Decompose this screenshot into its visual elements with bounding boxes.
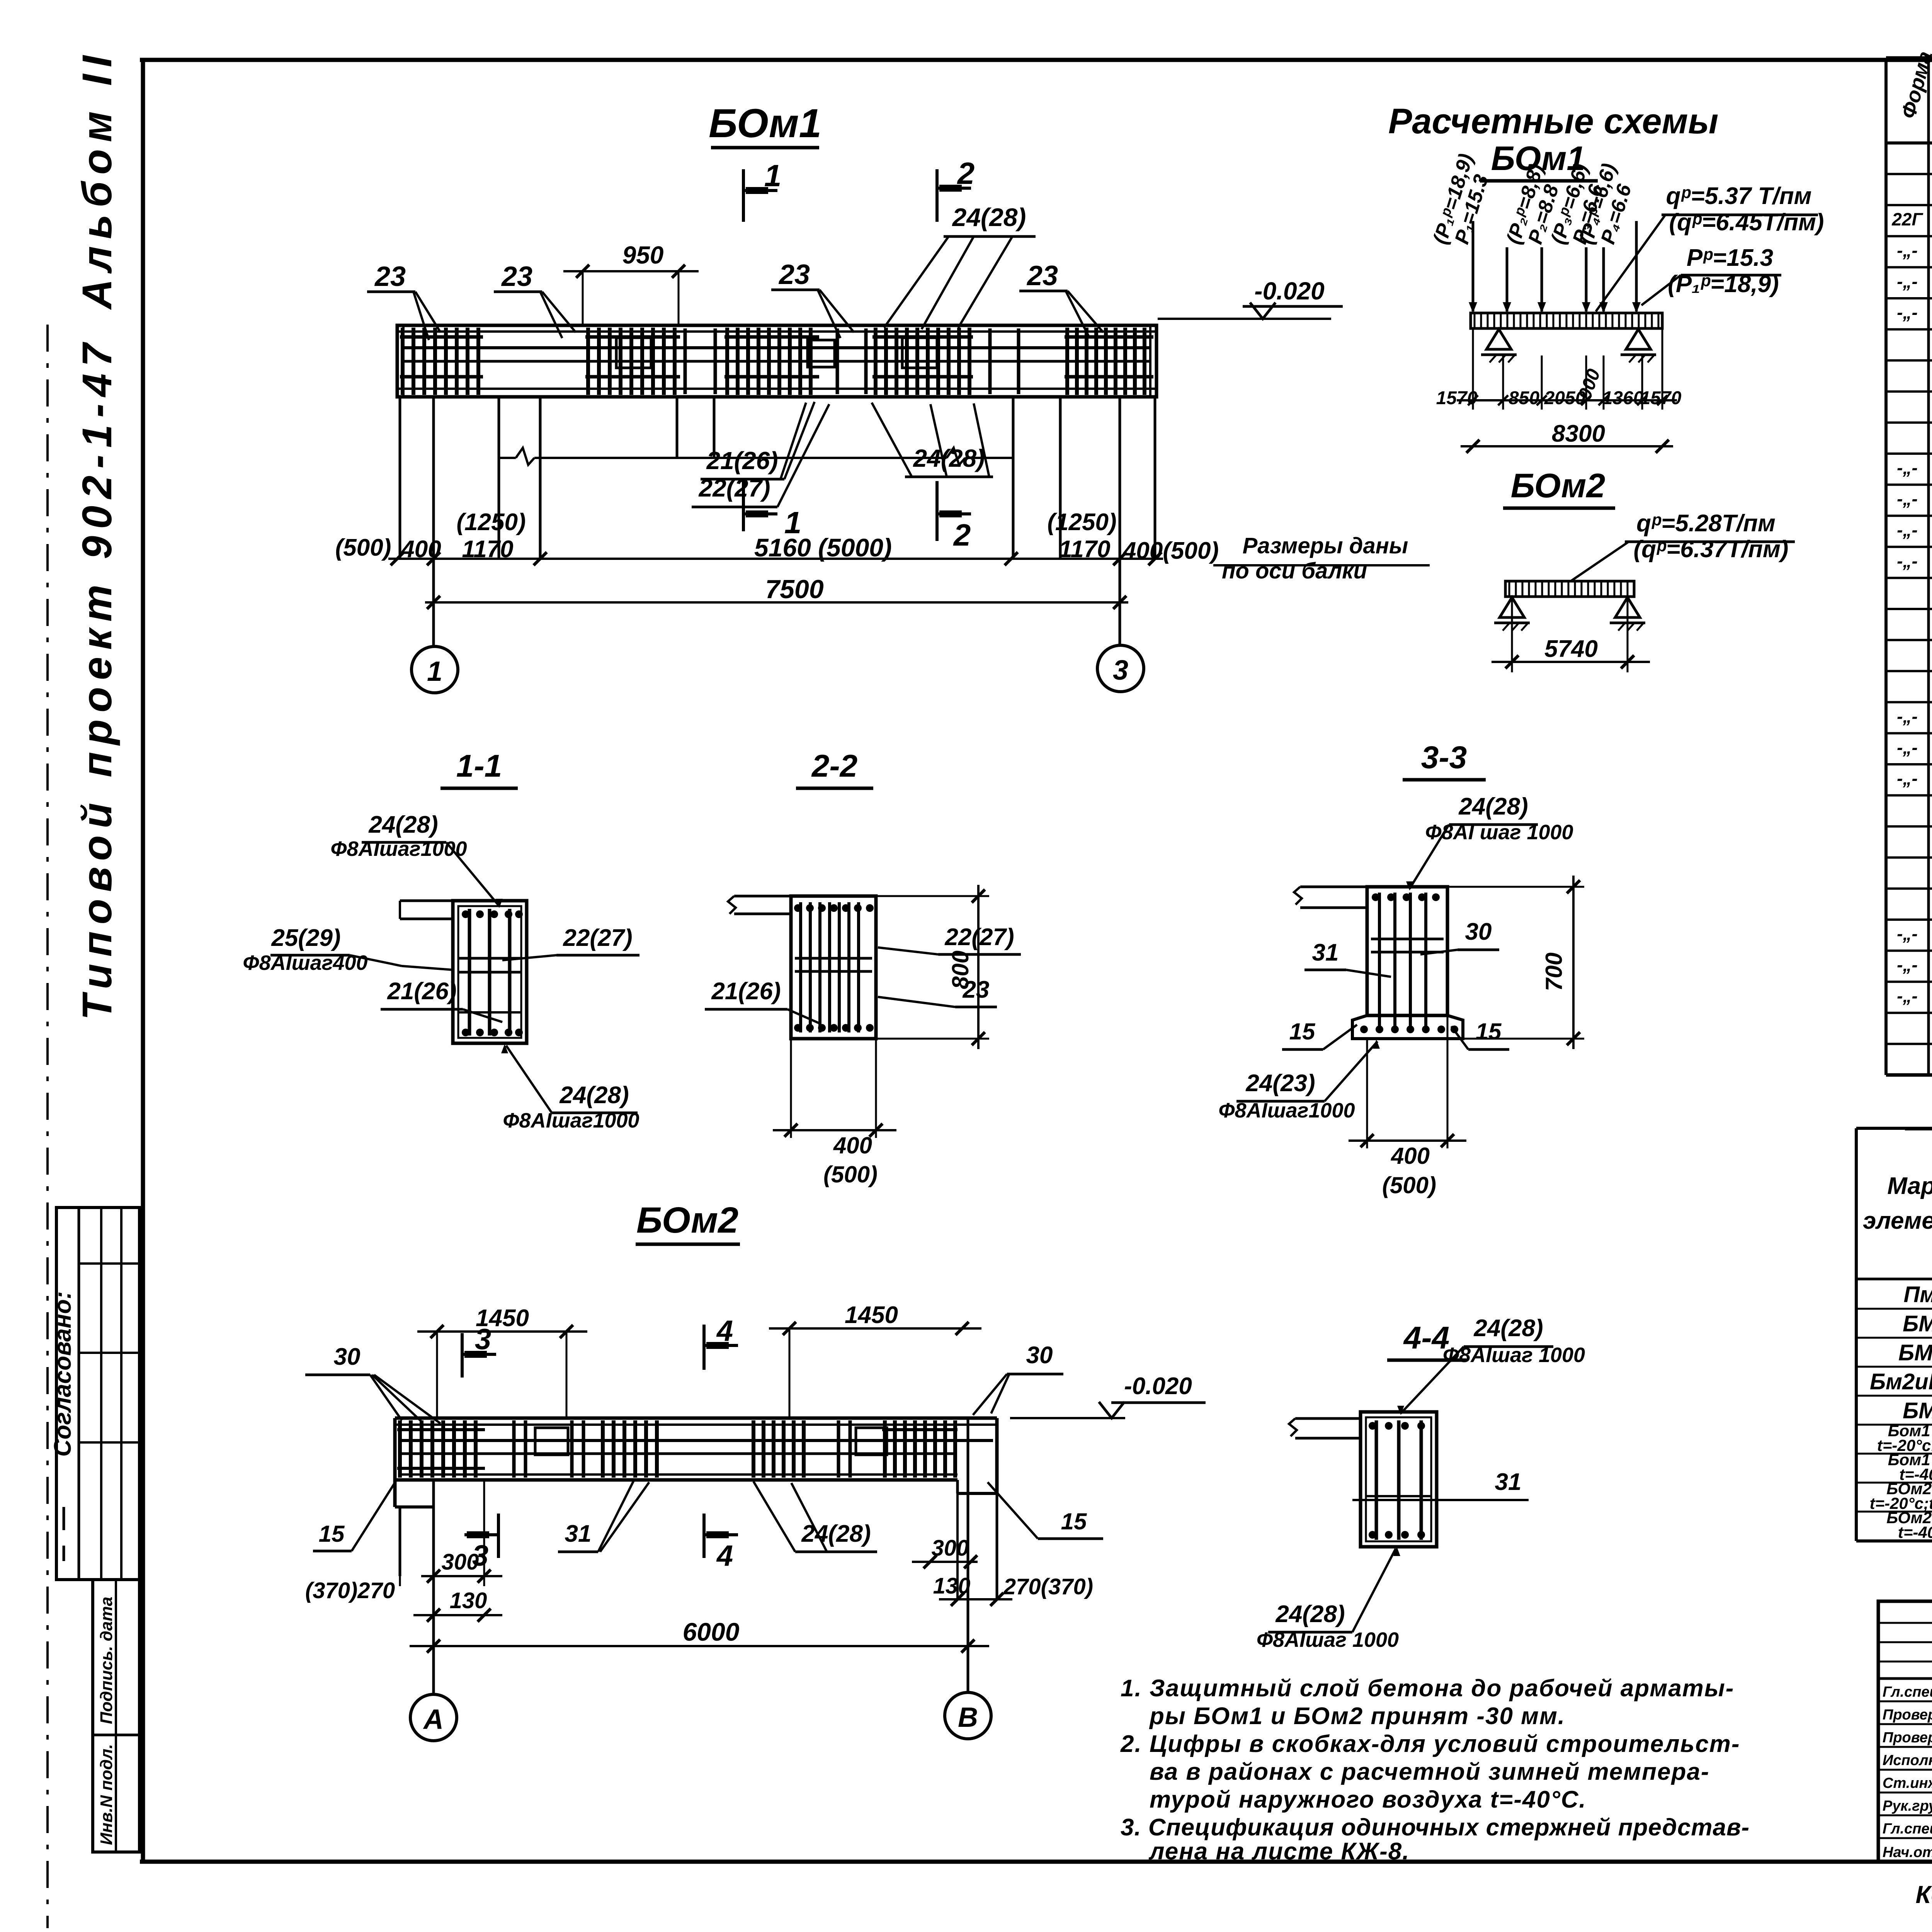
svg-text:БОм1: БОм1	[709, 101, 821, 146]
svg-text:1. Защитный слой бетона до: 1. Защитный слой бетона до рабочей армат…	[1121, 1675, 1734, 1702]
section 3-3 slab lines	[1294, 887, 1367, 908]
section mark 1 bottom	[743, 481, 801, 540]
svg-text:Согласовано:: Согласовано:	[49, 1291, 76, 1457]
section 3-3 rebar	[1360, 893, 1458, 1033]
svg-text:Ф8АІшаг 1000: Ф8АІшаг 1000	[1257, 1628, 1399, 1651]
dimension 7500	[425, 575, 1128, 609]
dimension 1450 right	[769, 1302, 981, 1418]
svg-text:21(26): 21(26)	[387, 978, 456, 1005]
svg-text:-„-: -„-	[1897, 769, 1918, 789]
svg-text:ры БОм1 и БОм2 принят -30 м: ры БОм1 и БОм2 принят -30 мм.	[1149, 1703, 1565, 1730]
label 23 c	[771, 259, 854, 338]
section 4-4 bottom label 24(28)	[1257, 1547, 1400, 1651]
title block row Проверил	[1883, 1727, 1932, 1746]
section 4-4 top label 24(28)	[1397, 1315, 1585, 1415]
steel row Бм2иБм2&#7495;	[1870, 1369, 1932, 1395]
label 23 a	[367, 261, 440, 340]
section 2-2 label 23	[878, 976, 997, 1007]
dimension 300 right	[912, 1536, 978, 1568]
section 3-3 bottom label 24(23)	[1218, 1039, 1380, 1122]
svg-text:В: В	[958, 1702, 978, 1733]
svg-text:Размеры даны: Размеры даны	[1243, 533, 1408, 558]
steel row БМ1	[1903, 1311, 1932, 1337]
svg-text:лена на листе КЖ-8.: лена на листе КЖ-8.	[1148, 1838, 1410, 1865]
spec table grid	[1886, 58, 1932, 1075]
section 3-3 top label 24(28)	[1406, 793, 1573, 891]
beam БОм1 cage right	[1065, 328, 1153, 395]
svg-text:24(28): 24(28)	[952, 203, 1026, 231]
beam БОм1 outline	[397, 325, 1156, 397]
svg-text:-„-: -„-	[1897, 271, 1918, 291]
title Расчетные схемы	[1388, 102, 1718, 141]
svg-text:23: 23	[778, 259, 810, 290]
svg-text:-„-: -„-	[1897, 737, 1918, 757]
steel row Пм1	[1904, 1282, 1932, 1307]
scheme БОм1 small dims	[1436, 328, 1682, 410]
section mark 2 bottom	[937, 481, 971, 552]
section 2-2 body	[791, 896, 876, 1039]
section 4-4 body	[1361, 1412, 1437, 1547]
svg-text:31: 31	[1312, 939, 1339, 966]
beam БОм1 gap pair bars	[685, 328, 1019, 394]
svg-text:(P₁ᵖ=18,9): (P₁ᵖ=18,9)	[1668, 271, 1779, 298]
svg-text:-„-: -„-	[1897, 489, 1918, 509]
beam БОм2 longitudinal bars	[398, 1440, 993, 1454]
svg-text:23: 23	[374, 261, 406, 292]
svg-text:2. Цифры в скобках-для условий: 2. Цифры в скобках-для условий строитель…	[1120, 1731, 1740, 1757]
label 30 left	[305, 1344, 440, 1423]
title БОм2	[636, 1200, 740, 1244]
svg-text:24(28): 24(28)	[1473, 1315, 1543, 1342]
svg-text:Нач.отд.: Нач.отд.	[1883, 1844, 1932, 1861]
scheme БОм1 dim 8300	[1461, 420, 1673, 453]
steel row Бом1 при	[1888, 1451, 1932, 1483]
section 2-2 rebar	[794, 902, 874, 1032]
Согласовано label	[49, 1291, 76, 1457]
label 31 under БОм2	[558, 1481, 649, 1552]
section 2-2 dim 800	[876, 885, 989, 1049]
section 3-3 labels 15	[1282, 1019, 1509, 1049]
svg-text:Альбом II: Альбом II	[73, 49, 120, 310]
svg-text:22Г: 22Г	[1891, 209, 1923, 230]
label 15 right bottom	[988, 1482, 1103, 1539]
svg-text:(1250): (1250)	[456, 509, 526, 536]
spec row 12	[1897, 519, 1932, 545]
svg-text:-„-: -„-	[1897, 706, 1918, 726]
svg-text:1570: 1570	[1436, 388, 1478, 408]
scheme БОм1 load arrows	[1469, 221, 1641, 313]
svg-text:2-2: 2-2	[811, 748, 858, 784]
svg-text:-0.020: -0.020	[1124, 1373, 1192, 1400]
svg-text:5160 (5000): 5160 (5000)	[754, 533, 892, 562]
spec row 5	[1897, 302, 1932, 328]
section 1-1 slab lines	[400, 901, 453, 919]
beam БОм2 cage middle2	[753, 1420, 804, 1478]
scheme БОм2 bar	[1505, 581, 1634, 597]
svg-text:-„-: -„-	[1897, 924, 1918, 944]
svg-text:850: 850	[1509, 388, 1539, 408]
section 3-3 label 30	[1420, 918, 1499, 954]
beam БОм2 cage middle	[603, 1420, 657, 1478]
beam БОм2 outline	[395, 1418, 997, 1507]
beam БОм1 cage D	[872, 328, 973, 395]
scheme БОм2 q label	[1571, 510, 1795, 581]
title section 4-4	[1387, 1320, 1466, 1360]
svg-text:Рук.груп.: Рук.груп.	[1883, 1798, 1932, 1814]
svg-text:БМ2ᵃ: БМ2ᵃ	[1898, 1340, 1932, 1366]
svg-text:-„-: -„-	[1897, 458, 1918, 478]
section mark 1 top	[743, 158, 781, 222]
spec row 10	[1897, 457, 1932, 483]
title scheme БОм1	[1480, 139, 1598, 181]
svg-text:по оси балки: по оси балки	[1222, 558, 1367, 583]
svg-text:24(28): 24(28)	[1275, 1601, 1345, 1628]
scheme БОм1 load labels rotated	[1429, 151, 1493, 247]
label 21(26) 22(27)	[692, 402, 829, 507]
title block row Исполн.	[1883, 1750, 1932, 1769]
section mark 4 bottom	[704, 1514, 738, 1572]
section mark 3 top	[462, 1323, 496, 1378]
svg-text:Расчетные схемы: Расчетные схемы	[1388, 102, 1718, 141]
svg-text:qᵖ=5.37 Т/пм: qᵖ=5.37 Т/пм	[1666, 183, 1812, 209]
left stamp box Подпись дата	[93, 1580, 139, 1852]
scheme БОм1 bar	[1471, 313, 1662, 328]
beam БОм1 stirrup hooks	[616, 338, 937, 368]
axis circle 3	[1097, 645, 1144, 692]
svg-text:Ф8АІшаг400: Ф8АІшаг400	[243, 951, 367, 975]
Согласовано box	[56, 1207, 139, 1580]
svg-text:3: 3	[1113, 655, 1128, 686]
svg-text:турой наружного воздуха t=-4: турой наружного воздуха t=-40°C.	[1150, 1786, 1587, 1813]
svg-text:(qᵖ=6.37Т/пм): (qᵖ=6.37Т/пм)	[1634, 536, 1789, 563]
steel row БОм2 при	[1886, 1509, 1932, 1541]
label 24(28) under БОм2	[753, 1481, 877, 1552]
spec row 3	[1897, 240, 1932, 265]
beam БОм2 cage left	[397, 1420, 485, 1478]
beam БОм2 stirrup hooks	[535, 1428, 887, 1455]
svg-text:(500): (500)	[823, 1162, 878, 1187]
spec row 19	[1897, 736, 1932, 762]
svg-text:-„-: -„-	[1897, 551, 1918, 571]
title block row Рук.груп.	[1883, 1796, 1932, 1815]
svg-text:4: 4	[716, 1315, 733, 1347]
section 2-2 slab lines	[728, 896, 791, 914]
svg-text:30: 30	[1465, 918, 1492, 945]
svg-text:24(23): 24(23)	[1245, 1070, 1315, 1097]
steel table title	[1905, 1095, 1932, 1129]
svg-text:7500: 7500	[765, 575, 823, 604]
section 1-1 top label 24(28)	[330, 811, 503, 908]
svg-text:Копировал Олешко: Копировал Олешко	[1916, 1881, 1932, 1908]
svg-text:Проверил: Проверил	[1883, 1730, 1932, 1746]
section 3-3 dim 400 500	[1349, 1015, 1466, 1198]
svg-text:1-1: 1-1	[456, 748, 502, 784]
section mark 2 top	[937, 156, 975, 222]
section 3-3 label 31	[1304, 939, 1391, 977]
section 2-2 label 22(27)	[878, 924, 1021, 954]
Инв N подл label	[97, 1744, 116, 1845]
svg-text:24(28): 24(28)	[913, 444, 985, 472]
spec row 18	[1897, 706, 1932, 731]
axis circle В	[945, 1692, 991, 1739]
title block row Проверил	[1883, 1704, 1932, 1723]
spec row 4	[1897, 270, 1932, 296]
spec row 27	[1897, 985, 1932, 1011]
svg-text:270(370): 270(370)	[1003, 1574, 1093, 1599]
left trim line dash-dot	[46, 325, 49, 1928]
svg-text:30: 30	[1026, 1342, 1053, 1369]
svg-text:-„-: -„-	[1897, 520, 1918, 540]
left margin vertical title	[73, 49, 120, 1020]
svg-text:Pᵖ=15.3: Pᵖ=15.3	[1687, 245, 1773, 271]
svg-text:Марка: Марка	[1887, 1173, 1932, 1199]
svg-text:(1250): (1250)	[1047, 509, 1116, 536]
svg-text:22(27): 22(27)	[563, 925, 632, 951]
svg-text:Гл.спец.Т.О: Гл.спец.Т.О	[1883, 1684, 1932, 1700]
title block outline	[1878, 1601, 1932, 1862]
svg-text:4: 4	[716, 1539, 733, 1572]
section 1-1 rebar	[458, 909, 523, 1036]
section mark 4 top	[704, 1315, 738, 1370]
title scheme БОм2	[1503, 466, 1615, 508]
svg-text:300: 300	[442, 1549, 479, 1575]
spec table header	[1897, 49, 1932, 126]
svg-text:Бм2иБм2ᵇ: Бм2иБм2ᵇ	[1870, 1369, 1932, 1395]
spec row 26	[1897, 954, 1932, 980]
svg-text:Типовой проект 902-1-47: Типовой проект 902-1-47	[73, 337, 120, 1020]
footer Копировал	[1916, 1881, 1932, 1908]
svg-text:30: 30	[334, 1344, 361, 1370]
spec row 11	[1897, 488, 1932, 514]
dimension 6000	[410, 1617, 989, 1653]
svg-text:130: 130	[450, 1588, 487, 1613]
spec row 25	[1897, 923, 1932, 949]
dimension 950	[563, 241, 699, 325]
svg-text:24(28): 24(28)	[559, 1082, 629, 1109]
svg-text:22(27): 22(27)	[699, 474, 770, 502]
scheme БОм1 support right	[1621, 329, 1656, 362]
svg-text:700: 700	[1541, 952, 1567, 991]
axis circle А	[410, 1694, 457, 1741]
notes text	[1120, 1675, 1750, 1865]
title section 1-1	[440, 748, 518, 788]
dimension 130 left	[305, 1578, 502, 1622]
beam БОм1 cage B	[585, 328, 680, 395]
dimension row 1 under beam	[335, 509, 1219, 565]
svg-text:Проверил: Проверил	[1883, 1707, 1932, 1723]
section 2-2 label 21(26)	[705, 978, 819, 1023]
section 1-1 label 22(27)	[502, 925, 639, 960]
svg-text:1450: 1450	[845, 1302, 898, 1328]
svg-text:Ф8АІшаг1000: Ф8АІшаг1000	[1218, 1099, 1355, 1122]
title block row Гл.спец.	[1883, 1818, 1932, 1837]
title section 2-2	[796, 748, 873, 788]
svg-text:-„-: -„-	[1897, 955, 1918, 975]
svg-text:31: 31	[565, 1520, 592, 1547]
scheme БОм2 support left	[1494, 597, 1530, 631]
section mark 3 bottom	[464, 1514, 498, 1572]
title section 3-3	[1403, 740, 1486, 780]
svg-text:1: 1	[427, 656, 442, 687]
svg-text:3: 3	[475, 1323, 491, 1356]
floor line with breaks	[499, 448, 1013, 465]
label 30 right	[973, 1342, 1063, 1415]
steel row Бом1 при	[1877, 1422, 1932, 1454]
svg-text:Ст.инж.: Ст.инж.	[1883, 1775, 1932, 1791]
svg-text:Гл.спец.: Гл.спец.	[1883, 1821, 1932, 1837]
scheme БОм2 support right	[1610, 597, 1645, 631]
axis circle 1	[412, 646, 458, 693]
svg-text:15: 15	[1061, 1509, 1087, 1534]
section 1-1 bottom label 24(28)	[501, 1044, 639, 1132]
title block row Гл.спец.Т.О	[1883, 1682, 1932, 1701]
svg-text:15: 15	[1476, 1019, 1502, 1044]
beam БОм1 support lines	[400, 397, 1155, 646]
section 1-1 label 25(29)	[243, 925, 453, 975]
svg-text:Исполн.: Исполн.	[1883, 1752, 1932, 1769]
svg-text:Пм1: Пм1	[1904, 1282, 1932, 1307]
level mark -0.020 top	[1158, 277, 1343, 319]
scheme БОм1 support left	[1481, 329, 1517, 362]
svg-text:(500): (500)	[335, 534, 391, 561]
svg-text:23: 23	[1026, 260, 1058, 291]
svg-text:-„-: -„-	[1897, 986, 1918, 1006]
svg-text:130: 130	[933, 1573, 971, 1599]
svg-text:2: 2	[957, 156, 975, 190]
label 23 d	[1019, 260, 1103, 338]
svg-text:3-3: 3-3	[1421, 740, 1467, 775]
scheme БОм1 q label	[1596, 183, 1824, 311]
svg-text:8300: 8300	[1552, 420, 1605, 447]
svg-text:21(26): 21(26)	[706, 447, 778, 474]
level mark -0.020 bottom	[1010, 1373, 1206, 1418]
section 4-4 rebar	[1366, 1420, 1431, 1540]
beam БОм1 longitudinal bars	[402, 348, 1151, 361]
svg-text:qᵖ=5.28Т/пм: qᵖ=5.28Т/пм	[1636, 510, 1776, 537]
svg-text:800: 800	[947, 951, 973, 989]
svg-text:(370)270: (370)270	[305, 1578, 395, 1603]
svg-text:1170: 1170	[1059, 536, 1110, 563]
svg-text:1: 1	[764, 158, 782, 193]
section 4-4 label 31	[1352, 1469, 1529, 1500]
section 2-2 dim 400 500	[773, 1039, 896, 1187]
note Размеры даны по оси балки	[1213, 533, 1430, 583]
svg-text:25(29): 25(29)	[271, 925, 340, 951]
steel table header	[1863, 1131, 1932, 1277]
svg-text:ва в районах с расчетной зимн: ва в районах с расчетной зимней темпера-	[1150, 1759, 1710, 1785]
label 24(28) top	[884, 203, 1036, 329]
svg-text:5740: 5740	[1544, 636, 1598, 662]
svg-text:-„-: -„-	[1897, 240, 1918, 260]
svg-text:А: А	[423, 1704, 444, 1735]
svg-text:(qᵖ=6.45Т/пм): (qᵖ=6.45Т/пм)	[1669, 209, 1824, 236]
section 3-3 dim 700	[1447, 876, 1584, 1049]
title block row Ст.инж.	[1883, 1773, 1932, 1792]
svg-text:31: 31	[1495, 1469, 1522, 1495]
svg-text:-0.020: -0.020	[1254, 277, 1324, 305]
svg-text:Ф8АІшаг1000: Ф8АІшаг1000	[330, 837, 467, 861]
label 24(28) bottom	[872, 403, 993, 477]
svg-text:БМ3: БМ3	[1903, 1398, 1932, 1423]
svg-text:Ф8АІшаг 1000: Ф8АІшаг 1000	[1443, 1344, 1585, 1367]
dimension 130 right	[933, 1573, 1093, 1606]
svg-text:элемента: элемента	[1863, 1207, 1932, 1234]
svg-text:300: 300	[932, 1536, 969, 1561]
svg-text:950: 950	[622, 241, 664, 269]
label 23 b	[494, 261, 576, 338]
svg-text:-„-: -„-	[1897, 303, 1918, 323]
svg-text:БОм2: БОм2	[1511, 466, 1605, 505]
beam БОм1 cage left	[400, 328, 483, 395]
steel table grid	[1856, 1128, 1932, 1541]
beam БОм2 cage right	[882, 1420, 957, 1478]
svg-text:400(500): 400(500)	[1122, 537, 1219, 564]
svg-text:400: 400	[400, 536, 441, 563]
spec row 2	[1891, 209, 1932, 235]
beam БОм2 supports	[400, 1418, 997, 1694]
dimension 300 left	[400, 1480, 502, 1586]
svg-text:Ф8АІ шаг 1000: Ф8АІ шаг 1000	[1425, 821, 1573, 844]
section 4-4 slab lines	[1289, 1418, 1361, 1438]
scheme БОм2 dim 5740	[1492, 597, 1650, 672]
steel row БМ2&#7491;	[1898, 1340, 1932, 1366]
svg-text:23: 23	[501, 261, 532, 292]
title block left grid	[1878, 1601, 1932, 1862]
dimension 1450 left	[417, 1305, 587, 1418]
Подпись дата label	[97, 1597, 116, 1724]
spec row 20	[1897, 768, 1932, 794]
svg-text:24(28): 24(28)	[368, 811, 438, 838]
svg-text:400: 400	[833, 1133, 872, 1158]
svg-text:24(28): 24(28)	[1458, 793, 1528, 820]
title block row Нач.отд.	[1883, 1842, 1932, 1861]
beam БОм1 cage C	[724, 328, 819, 395]
svg-text:Ф8АІшаг1000: Ф8АІшаг1000	[503, 1109, 639, 1132]
svg-text:БМ1: БМ1	[1903, 1311, 1932, 1337]
svg-text:Подпись. дата: Подпись. дата	[97, 1597, 116, 1724]
svg-text:1360: 1360	[1602, 388, 1644, 408]
label 15 left bottom	[313, 1481, 396, 1551]
steel row БМ3	[1903, 1398, 1932, 1423]
svg-text:15: 15	[319, 1521, 345, 1547]
svg-text:(500): (500)	[1382, 1172, 1436, 1198]
steel row БОм2 при	[1870, 1480, 1932, 1512]
spec row 13	[1897, 550, 1932, 576]
svg-text:6000: 6000	[683, 1617, 740, 1646]
svg-text:2: 2	[953, 518, 971, 552]
svg-text:400: 400	[1391, 1143, 1430, 1169]
svg-text:15: 15	[1289, 1019, 1316, 1044]
title БОм1	[709, 101, 821, 148]
svg-text:t=-40°C: t=-40°C	[1898, 1523, 1932, 1541]
section 1-1 body	[453, 901, 527, 1043]
svg-text:1170: 1170	[462, 536, 513, 563]
section 1-1 label 21(26)	[381, 978, 502, 1022]
svg-text:3. Спецификация одиночных ст: 3. Спецификация одиночных стержней предс…	[1121, 1814, 1750, 1841]
svg-text:21(26): 21(26)	[711, 978, 781, 1005]
scheme БОм1 P right label	[1641, 245, 1781, 305]
section 3-3 body	[1352, 887, 1463, 1039]
beam БОм2 pair bars	[514, 1420, 850, 1478]
svg-text:1570: 1570	[1640, 388, 1682, 408]
svg-text:Инв.N подл.: Инв.N подл.	[97, 1744, 116, 1845]
svg-text:БОм2: БОм2	[636, 1200, 738, 1241]
